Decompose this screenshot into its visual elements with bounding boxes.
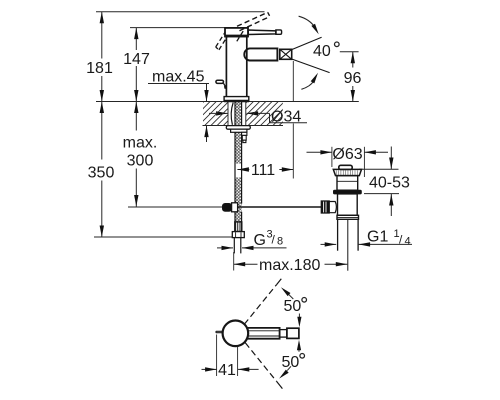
svg-text:41: 41: [218, 362, 236, 379]
svg-text:max.180: max.180: [259, 257, 320, 274]
svg-text:G: G: [254, 232, 266, 249]
svg-text:111: 111: [251, 162, 275, 179]
svg-text:40-53: 40-53: [369, 175, 410, 192]
svg-text:8: 8: [277, 236, 283, 248]
svg-text:max.45: max.45: [152, 69, 205, 86]
svg-text:40: 40: [313, 43, 331, 60]
svg-text:4: 4: [405, 236, 411, 248]
svg-text:50: 50: [282, 354, 300, 371]
svg-text:50: 50: [284, 298, 302, 315]
svg-text:350: 350: [88, 165, 115, 182]
svg-text:300: 300: [127, 153, 154, 170]
svg-text:Ø63: Ø63: [332, 146, 362, 163]
svg-text:G1: G1: [367, 229, 388, 246]
svg-text:max.: max.: [123, 135, 158, 152]
svg-text:96: 96: [344, 70, 362, 87]
svg-text:181: 181: [86, 60, 113, 77]
svg-text:147: 147: [123, 51, 150, 68]
